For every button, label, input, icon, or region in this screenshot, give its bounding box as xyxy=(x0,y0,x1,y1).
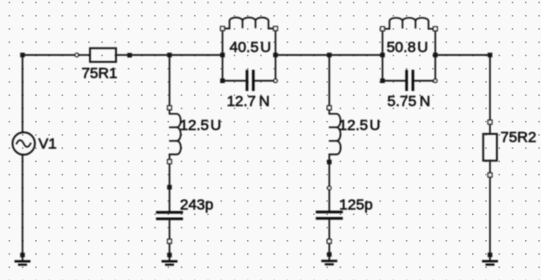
node: junction at top-left corner xyxy=(20,53,25,58)
tank 2: left vertical wire xyxy=(382,29,384,81)
source V1 xyxy=(13,132,35,154)
svg-text:75R1: 75R1 xyxy=(82,65,118,82)
wire: tank2 to R2 branch xyxy=(435,54,490,56)
wire: C1 to ground xyxy=(169,220,171,261)
node: tank1 left mid junction xyxy=(220,53,225,58)
ground: branch 2 xyxy=(321,252,337,264)
inductor L4 50.8U (tank2 top) xyxy=(381,18,438,31)
wire: L1 to C1 xyxy=(169,162,171,212)
node: tank2 left mid junction xyxy=(380,53,385,58)
wire: R1 to tank1 left xyxy=(130,54,223,56)
node: tank2 right mid junction xyxy=(433,53,438,58)
tank 2: right vertical wire xyxy=(434,29,436,81)
node: pin dot between L1 and C1 xyxy=(167,185,172,190)
svg-text:5.75N: 5.75N xyxy=(387,93,430,110)
wire: left vertical from corner down to V1 top xyxy=(22,55,24,133)
node: junction branch 2 xyxy=(327,53,332,58)
inductor L1 12.5U xyxy=(168,106,181,164)
svg-text:12.5U: 12.5U xyxy=(339,117,381,134)
capacitor C3 12.7N (tank1 bottom) xyxy=(220,70,277,91)
wire: branch1 junction down to L1 xyxy=(169,55,171,108)
wire: R2 to ground xyxy=(489,161,491,261)
capacitor C1 243p xyxy=(156,212,183,218)
svg-text:243p: 243p xyxy=(180,196,213,213)
wire: tank1 to branch2 xyxy=(276,54,383,56)
ground: below V1 xyxy=(15,253,31,265)
svg-text:V1: V1 xyxy=(38,135,56,152)
wire: L2 to C2 xyxy=(328,162,330,211)
svg-text:12.7N: 12.7N xyxy=(227,93,270,110)
ground: below R2 xyxy=(482,253,498,265)
tank 1: right vertical wire xyxy=(275,29,277,81)
inductor L2 12.5U xyxy=(327,106,341,165)
node: junction branch 1 xyxy=(167,53,172,58)
capacitor C4 5.75N (tank2 bottom) xyxy=(380,70,437,91)
svg-text:125p: 125p xyxy=(339,196,372,213)
node: C2 top pin (open circle) xyxy=(328,186,332,190)
svg-text:50.8U: 50.8U xyxy=(387,39,429,56)
tank 1: left vertical wire xyxy=(222,29,224,81)
ground: branch 1 xyxy=(162,253,178,265)
wire: junction down to R2 xyxy=(489,55,491,134)
svg-text:75R2: 75R2 xyxy=(501,129,537,146)
resistor R2 xyxy=(483,120,497,177)
node: C1 bottom pin xyxy=(168,239,172,243)
node: C2 bottom pin xyxy=(327,239,331,243)
svg-text:40.5U: 40.5U xyxy=(230,39,272,56)
wire: branch2 junction down to L2 xyxy=(328,55,330,108)
capacitor C2 125p xyxy=(316,212,343,218)
inductor L3 40.5U (tank1 top) xyxy=(221,18,278,31)
node: tank1 right mid junction xyxy=(273,53,278,58)
wire: top-left corner junction to R1 left pin xyxy=(23,54,77,56)
node: junction R2 branch xyxy=(488,53,493,58)
resistor R1 xyxy=(75,48,132,62)
wire: V1 bottom to ground xyxy=(22,155,24,261)
wire: C2 to ground xyxy=(328,220,330,261)
svg-text:12.5U: 12.5U xyxy=(180,117,222,134)
